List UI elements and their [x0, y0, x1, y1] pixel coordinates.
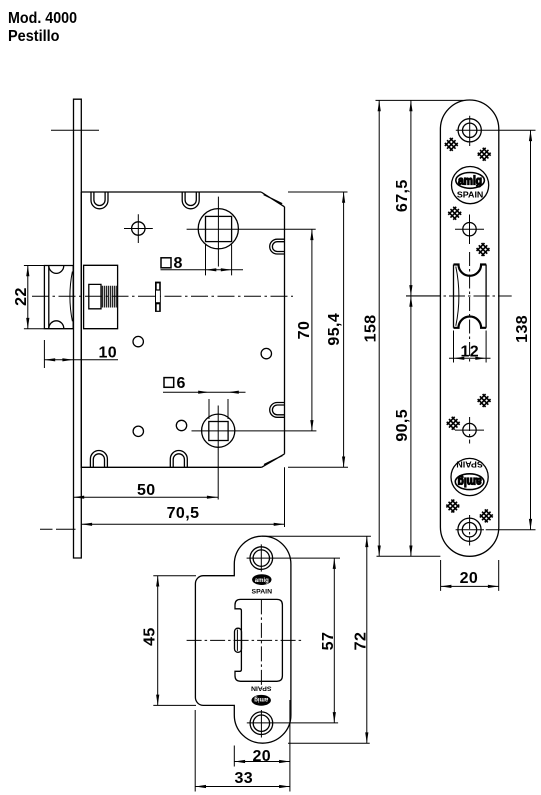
- svg-text:SPAIN: SPAIN: [456, 460, 483, 470]
- bent tab bottom 2: [170, 451, 187, 468]
- amig logo bottom (inverted): [451, 458, 488, 495]
- strike screw hole top: [250, 547, 273, 570]
- dim 95,4 right: [288, 192, 348, 467]
- svg-text:138: 138: [514, 315, 531, 343]
- bent tab top 2: [182, 192, 199, 209]
- strike logo bottom inverted: [252, 695, 271, 706]
- strike crosshairs and centerlines: [187, 544, 340, 737]
- bent tab top 1: [91, 192, 108, 209]
- svg-text:72: 72: [352, 632, 369, 651]
- svg-text:SPAIN: SPAIN: [251, 684, 272, 691]
- plain hole D: [176, 420, 186, 430]
- knurl flake 8: [478, 507, 495, 524]
- latch opening faceplate: [454, 265, 487, 328]
- follower top crosshair: [187, 197, 316, 267]
- faceplate vertical centerline: [469, 252, 471, 363]
- knurl flake 1: [443, 136, 460, 153]
- svg-text:amig: amig: [254, 696, 268, 703]
- dim 33 strike: [195, 710, 290, 792]
- faceplate outline: [440, 100, 498, 556]
- svg-text:22: 22: [13, 287, 30, 306]
- svg-text:70,5: 70,5: [167, 505, 200, 522]
- dim 10: [44, 340, 118, 368]
- dim 67,5 and 90,5: [406, 100, 440, 556]
- case bottom-right chamfer: [262, 454, 285, 467]
- svg-text:SPAIN: SPAIN: [457, 190, 484, 200]
- svg-text:amig: amig: [458, 475, 482, 489]
- dim 20 faceplate: [441, 560, 499, 591]
- lock case outline: [81, 192, 284, 467]
- svg-text:95,4: 95,4: [326, 313, 343, 346]
- dim 70,5: [81, 467, 284, 527]
- dim 8 square: [161, 245, 244, 276]
- strike dust bump: [235, 628, 242, 652]
- dim 70 right: [311, 229, 313, 431]
- dim 6 square: [163, 392, 246, 419]
- svg-text:8: 8: [174, 255, 183, 272]
- dim 72: [262, 536, 371, 743]
- bent tab bottom 1: [90, 451, 107, 468]
- latch bolt tail: [89, 284, 101, 308]
- follower hole top (8mm square): [198, 209, 238, 249]
- plain hole B: [261, 348, 271, 358]
- svg-text:Mod. 4000: Mod. 4000: [8, 10, 77, 27]
- strike plate outline: [195, 536, 291, 743]
- knurl flake 2: [476, 146, 493, 163]
- dim 50: [73, 496, 218, 498]
- faceplate screw centerline tick bottom: [40, 528, 76, 530]
- spring: [102, 286, 116, 308]
- faceplate strip (side view): [74, 99, 82, 558]
- svg-text:67,5: 67,5: [394, 179, 411, 212]
- dim text square6: [164, 378, 174, 388]
- knurl flake 4: [475, 241, 492, 258]
- small hole top: [463, 223, 476, 236]
- svg-text:SPAIN: SPAIN: [252, 588, 273, 595]
- small hole with crosshair top-left: [132, 222, 145, 235]
- plain hole A: [133, 336, 143, 346]
- dim 158: [376, 100, 464, 556]
- svg-text:90,5: 90,5: [394, 409, 411, 442]
- dim 57: [333, 558, 335, 723]
- guide pin: [155, 282, 161, 312]
- bent tab right 2: [270, 403, 285, 418]
- svg-text:70: 70: [296, 321, 313, 340]
- svg-text:20: 20: [460, 570, 479, 587]
- follower hole bottom (6mm square): [202, 414, 235, 447]
- svg-text:10: 10: [99, 345, 118, 362]
- knurl flake 7: [444, 498, 461, 515]
- faceplate crosshairs: [455, 116, 536, 546]
- small hole bottom: [463, 423, 476, 436]
- svg-text:33: 33: [234, 770, 253, 787]
- dim 12: [449, 331, 491, 363]
- main horizontal centerline: [32, 295, 293, 297]
- faceplate screw hole bottom: [458, 518, 481, 541]
- faceplate screw hole top: [458, 119, 481, 142]
- knurl flake 6: [445, 415, 462, 432]
- strike screw hole bottom: [250, 712, 273, 735]
- dim 20 strike: [234, 700, 290, 792]
- amig logo top: [452, 167, 489, 204]
- svg-text:20: 20: [252, 748, 271, 765]
- plain hole C: [133, 426, 143, 436]
- dim 45: [153, 576, 196, 706]
- dim 22: [24, 266, 44, 329]
- svg-text:57: 57: [320, 632, 337, 651]
- svg-text:amig: amig: [255, 577, 269, 584]
- strike logo top: [252, 574, 271, 585]
- strike latch opening: [235, 599, 282, 681]
- faceplate screw centerline tick top: [51, 129, 99, 131]
- svg-text:45: 45: [141, 627, 158, 646]
- latch bolt head: [44, 266, 73, 329]
- case top-right chamfer: [261, 192, 284, 207]
- svg-text:12: 12: [460, 344, 479, 361]
- knurl flake 3: [446, 205, 463, 222]
- svg-text:158: 158: [363, 314, 380, 342]
- svg-text:Pestillo: Pestillo: [8, 28, 60, 45]
- svg-text:50: 50: [137, 482, 156, 499]
- latch housing: [84, 265, 118, 328]
- svg-text:amig: amig: [458, 174, 482, 188]
- bent tab right 1: [270, 239, 285, 254]
- dim text square8: [161, 258, 171, 268]
- svg-text:6: 6: [177, 375, 186, 392]
- knurl flake 5: [476, 392, 493, 409]
- follower bottom crosshair: [192, 406, 317, 500]
- dim 138: [530, 130, 532, 529]
